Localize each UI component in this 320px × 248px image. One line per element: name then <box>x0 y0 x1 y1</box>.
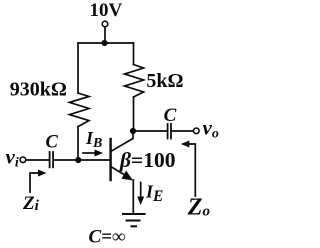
wire collector lead <box>112 131 134 151</box>
resistor R2 5k zigzag <box>125 65 144 98</box>
terminal input open circle <box>20 157 26 163</box>
svg-text:C=∞: C=∞ <box>89 226 126 247</box>
svg-text:C: C <box>164 105 177 126</box>
wire input right segment to base <box>54 159 110 161</box>
node collector junction <box>130 128 136 134</box>
wire left drop <box>77 43 79 93</box>
svg-text:IE: IE <box>145 182 163 206</box>
transistor Q1 emitter arrowhead <box>122 171 134 181</box>
wire right lower to collector node <box>133 97 135 131</box>
svg-text:Zo: Zo <box>187 195 210 221</box>
ground symbol <box>123 213 145 215</box>
svg-text:Zi: Zi <box>22 193 40 214</box>
arrow IB shaft <box>83 152 96 154</box>
wire left lower to base node <box>77 127 79 160</box>
svg-text:10V: 10V <box>90 0 123 21</box>
terminal output open circle <box>194 128 200 134</box>
arrowhead IB <box>95 150 104 157</box>
capacitor C2 output plates <box>167 124 169 139</box>
arrow Zo bent <box>188 144 195 196</box>
capacitor C1 input plates <box>49 152 51 167</box>
transistor Q1 base bar <box>109 139 111 180</box>
node base junction <box>75 157 81 163</box>
wire top rail <box>78 42 134 44</box>
arrow Zi bent <box>30 173 39 192</box>
wire output to terminal <box>172 130 194 132</box>
wire right drop <box>133 43 135 65</box>
arrow IE shaft <box>140 183 142 199</box>
resistor R1 930k zigzag <box>70 93 90 127</box>
svg-text:vi: vi <box>6 145 19 171</box>
node supply junction <box>101 40 107 46</box>
arrowhead Zi <box>38 170 47 177</box>
transistor Q1 emitter lead <box>112 167 129 177</box>
svg-text:vo: vo <box>203 116 219 142</box>
svg-text:5kΩ: 5kΩ <box>146 70 183 92</box>
svg-text:β=100: β=100 <box>119 148 176 172</box>
wire emitter drop <box>132 180 134 213</box>
svg-text:C: C <box>46 133 59 153</box>
wire input left segment <box>26 159 49 161</box>
terminal supply open circle <box>102 21 108 27</box>
wire collector to output cap <box>133 130 167 132</box>
svg-text:930kΩ: 930kΩ <box>10 79 67 101</box>
svg-text:IB: IB <box>85 128 102 151</box>
arrowhead IE <box>137 197 144 206</box>
wire supply stem <box>104 27 106 43</box>
arrowhead Zo <box>181 141 190 148</box>
